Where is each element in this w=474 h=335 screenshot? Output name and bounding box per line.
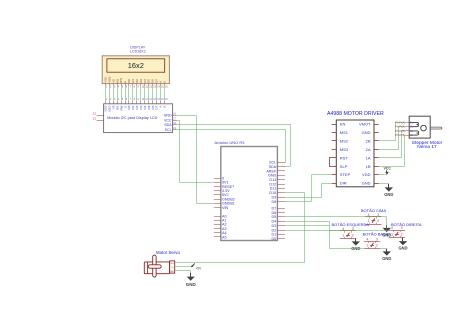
wire VDD to VCC symbol	[379, 174, 387, 176]
wire LCD pin 5 to I2C module	[122, 84, 124, 104]
I2C backpack module U2 Modulo I2C para Display LCD	[104, 104, 173, 133]
wire LCD pin 12 to I2C module	[149, 84, 153, 104]
wire LCD pin 3 to I2C module	[114, 84, 117, 104]
A4988 left pin EN	[332, 122, 346, 127]
ground symbol under A4988	[384, 184, 393, 197]
svg-text:Nema 17: Nema 17	[417, 144, 437, 150]
wire A4988 GND pin to ground	[379, 184, 389, 188]
wire LCD pin 6 to I2C module	[126, 84, 128, 104]
Arduino right pin D8	[271, 200, 284, 204]
wire LCD pin 9 to I2C module	[137, 84, 140, 104]
svg-text:BOTÃO BAIXO: BOTÃO BAIXO	[363, 232, 390, 237]
A4988 left pin STEP	[332, 172, 351, 177]
svg-text:D5: D5	[271, 215, 276, 219]
svg-text:A5: A5	[222, 235, 227, 239]
svg-text:D13: D13	[269, 178, 276, 182]
svg-text:D10: D10	[269, 191, 276, 195]
svg-text:SIG: SIG	[170, 263, 174, 265]
I2C module right pin GND	[164, 113, 178, 118]
svg-text:D0: D0	[271, 237, 276, 241]
Arduino left pin A1	[214, 219, 227, 223]
svg-text:1: 1	[366, 244, 368, 248]
Arduino UNO R3 U1	[215, 140, 278, 240]
stepper pin 1b	[395, 133, 414, 137]
Arduino left pin 5V2	[214, 193, 229, 197]
pushbutton BOTAO CIMA	[365, 213, 381, 225]
svg-text:GND: GND	[382, 256, 391, 261]
Arduino right pin D4	[271, 220, 284, 224]
A4988 right pin GND	[362, 181, 379, 186]
svg-text:1: 1	[342, 233, 344, 237]
pushbutton BOTAO ESQUERDA	[340, 227, 356, 238]
A4988 right pin VDD	[362, 172, 379, 177]
wire LCD pin 8 to I2C module	[133, 84, 136, 104]
wire Arduino D4 stub line	[285, 225, 330, 227]
stepper pin 2b	[395, 125, 414, 129]
svg-text:GND: GND	[398, 246, 407, 251]
Arduino left pin GNDB1	[214, 202, 235, 206]
Arduino right pin D10	[269, 191, 284, 195]
wire branch to esquerda rail	[330, 230, 340, 232]
A4988 left pin MS3	[332, 147, 349, 152]
svg-text:K: K	[163, 81, 167, 83]
svg-text:VMOT: VMOT	[359, 122, 371, 127]
svg-text:SDA: SDA	[269, 165, 277, 169]
Arduino right pin AREF	[266, 169, 285, 173]
svg-text:2A: 2A	[366, 147, 371, 152]
wire LCD pin 16 to I2C module	[165, 84, 169, 104]
Arduino left pin 5V1	[214, 181, 229, 185]
Arduino left pin A2	[214, 223, 227, 227]
wire LCD pin 4 to I2C module	[118, 84, 120, 104]
svg-text:BOTÃO CIMA: BOTÃO CIMA	[361, 208, 386, 213]
svg-text:D8: D8	[271, 200, 276, 204]
I2C module left pins LED1 LED2	[93, 112, 104, 121]
svg-text:VCC: VCC	[384, 167, 392, 171]
stepper pin 2a	[395, 120, 414, 124]
wire net STEP : Arduino D9 to A4988 STEP	[285, 175, 332, 202]
svg-text:Arduino UNO R3: Arduino UNO R3	[215, 140, 246, 145]
wire net BT-CIMA : Arduino D6 to button cima, down to direita	[285, 217, 389, 231]
svg-text:SCL: SCL	[165, 128, 172, 132]
wire LCD pin 15 to I2C module	[161, 84, 165, 104]
A4988 motor driver U3	[327, 111, 384, 187]
svg-text:GND: GND	[362, 181, 371, 186]
svg-text:D3: D3	[271, 224, 276, 228]
wire BAIXO rail to ground	[380, 248, 387, 250]
Arduino right pin GND	[268, 174, 285, 178]
Arduino right pin SCL	[269, 161, 285, 165]
svg-text:GND: GND	[169, 271, 174, 273]
wire net DIR : Arduino D5 to A4988 DIR	[285, 184, 332, 198]
Arduino left pin 3.3V	[214, 189, 230, 193]
wire LCD pin 10 to I2C module	[141, 84, 145, 104]
wire net GND : I2C GND to Arduino GNDB1	[178, 116, 214, 204]
wire LCD pin 1 to I2C module	[106, 84, 109, 104]
Arduino left pin GNDB2	[214, 197, 235, 201]
wire LCD pin 14 to I2C module	[157, 84, 161, 104]
ground symbol under servo	[186, 273, 197, 287]
I2C module right pin SCL	[165, 127, 178, 132]
Arduino right pin D11	[270, 187, 285, 191]
svg-text:Modulo I2C para Display LCD: Modulo I2C para Display LCD	[107, 116, 157, 120]
svg-text:A4988 MOTOR DRIVER: A4988 MOTOR DRIVER	[327, 111, 384, 117]
svg-text:16x2: 16x2	[128, 61, 144, 70]
svg-text:SLP: SLP	[340, 164, 348, 169]
svg-text:2: 2	[352, 233, 354, 237]
svg-text:Ph-Fi(B): Ph-Fi(B)	[395, 133, 405, 137]
servo motor M2 Motor Servo	[144, 250, 180, 277]
Arduino right pin SDA	[269, 165, 285, 169]
A4988 left pin MS2	[332, 139, 349, 144]
svg-text:1: 1	[391, 232, 393, 236]
svg-text:4: 4	[366, 237, 368, 241]
svg-text:MS2: MS2	[340, 139, 349, 144]
LCD display DISPLAY LCD16X2	[102, 45, 169, 83]
wire LCD pin 7 to I2C module	[129, 84, 132, 104]
A4988 right pin 2A	[366, 147, 379, 152]
power symbol +5V	[191, 263, 202, 270]
A4988 right pin VMOT	[359, 122, 379, 127]
Arduino right pin D2	[271, 228, 284, 232]
Arduino left pin A4	[214, 231, 227, 235]
svg-text:MS3: MS3	[340, 147, 349, 152]
svg-text:D7: D7	[271, 206, 276, 210]
A4988 right pin 1A	[366, 155, 379, 160]
svg-text:2B: 2B	[366, 139, 371, 144]
wire net VCC : I2C VCC to Arduino 5V1	[178, 121, 214, 183]
svg-text:STEP: STEP	[340, 172, 351, 177]
svg-text:VDD: VDD	[362, 172, 371, 177]
svg-text:GND: GND	[362, 130, 371, 135]
wire net 1B : A4988 1B to stepper	[379, 136, 406, 167]
wire LCD pin 2 to I2C module	[110, 84, 113, 104]
svg-text:BOTÃO DIREITA: BOTÃO DIREITA	[391, 222, 422, 227]
I2C module right pin VCC	[164, 117, 177, 122]
svg-text:GND: GND	[384, 192, 393, 197]
Arduino right pin D6	[271, 211, 284, 215]
Arduino right pin D3	[271, 224, 284, 228]
ground symbol under BOTAO CIMA	[382, 225, 391, 237]
stepper pin 1a	[395, 129, 414, 133]
svg-text:1A: 1A	[366, 155, 371, 160]
svg-text:2: 2	[377, 219, 379, 223]
svg-text:MS1: MS1	[340, 130, 349, 135]
power symbol VCC	[384, 167, 392, 175]
wire LCD pin 13 to I2C module	[153, 84, 157, 104]
pushbutton BOTAO DIREITA	[389, 226, 405, 237]
wire servo V+ to +5V	[175, 266, 193, 268]
svg-text:4: 4	[391, 226, 393, 230]
A4988 left pin SLP	[332, 164, 348, 169]
svg-text:GND: GND	[164, 114, 172, 118]
svg-text:BOTÃO ESQUERDA: BOTÃO ESQUERDA	[332, 222, 370, 227]
pushbutton BOTAO BAIXO	[364, 237, 380, 248]
wire net 2A : A4988 2A to stepper	[379, 127, 406, 150]
Arduino left pin A0	[214, 214, 227, 218]
wire servo GND down	[175, 271, 191, 277]
wire net SDA : I2C SDA to Arduino SDA	[178, 125, 291, 167]
Arduino right pin D5	[271, 215, 284, 219]
ground symbol under BOTAO BAIXO	[382, 249, 391, 261]
svg-text:D11: D11	[270, 187, 277, 191]
wire net BT-ESQ : Arduino D5 to button esquerda and baixo	[285, 222, 364, 249]
svg-text:3: 3	[401, 226, 403, 230]
svg-text:VIN: VIN	[222, 206, 228, 210]
stepper motor M1 Nema 17	[409, 116, 442, 150]
wire net SCL : I2C SCL to Arduino SCL	[178, 130, 286, 163]
svg-text:RST: RST	[340, 155, 349, 160]
svg-text:GND: GND	[268, 174, 277, 178]
A4988 right pin 2B	[366, 139, 379, 144]
svg-text:SCL: SCL	[269, 161, 276, 165]
svg-text:GND: GND	[186, 282, 197, 287]
Arduino right pin D0	[271, 237, 284, 241]
svg-text:22: 22	[93, 112, 97, 116]
I2C module right pin SDA	[164, 122, 177, 127]
svg-text:2: 2	[376, 244, 378, 248]
wire net 2B : A4988 2B to stepper	[379, 123, 406, 141]
Arduino right pin D9	[271, 196, 284, 200]
Arduino left pin 0	[214, 176, 224, 180]
A4988 left pin DIR	[332, 181, 347, 186]
svg-text:LCD16X2: LCD16X2	[130, 49, 146, 53]
Arduino left pin VIN	[214, 206, 229, 210]
svg-text:+5V: +5V	[195, 267, 202, 271]
wire LCD pin 11 to I2C module	[145, 84, 149, 104]
Arduino right pin D7	[271, 206, 284, 210]
A4988 right pin GND	[362, 130, 379, 135]
svg-text:VCC: VCC	[164, 118, 172, 122]
Arduino right pin D12	[269, 182, 284, 186]
wire net SERVO-SIG : servo to Arduino D11	[175, 193, 305, 263]
svg-text:21: 21	[93, 116, 97, 120]
svg-text:2: 2	[401, 232, 403, 236]
ground symbol under BOTAO ESQUERDA	[351, 239, 360, 251]
A4988 left pin RST	[332, 155, 349, 160]
Arduino left pin A5	[214, 235, 227, 239]
ground symbol under BOTAO DIREITA	[398, 238, 407, 251]
wire net BT-DIR : Arduino D3 to button direita	[285, 230, 389, 232]
svg-text:1B: 1B	[366, 164, 371, 169]
A4988 left pin MS1	[332, 130, 349, 135]
wire net 1A : A4988 1A to stepper	[379, 131, 406, 158]
A4988 RST-SLP jumper bracket	[330, 158, 332, 167]
Arduino right pin D13	[269, 178, 284, 182]
svg-text:SDA: SDA	[164, 123, 172, 127]
A4988 right pin 1B	[366, 164, 379, 169]
Arduino left pin RESET	[214, 185, 235, 189]
svg-text:DIR: DIR	[340, 181, 347, 186]
svg-text:K: K	[163, 106, 167, 108]
svg-text:3: 3	[376, 237, 378, 241]
Arduino right pin D1	[271, 233, 284, 237]
svg-text:Motor Servo: Motor Servo	[156, 250, 180, 255]
svg-text:EN: EN	[340, 122, 346, 127]
Arduino left pin A3	[214, 227, 227, 231]
